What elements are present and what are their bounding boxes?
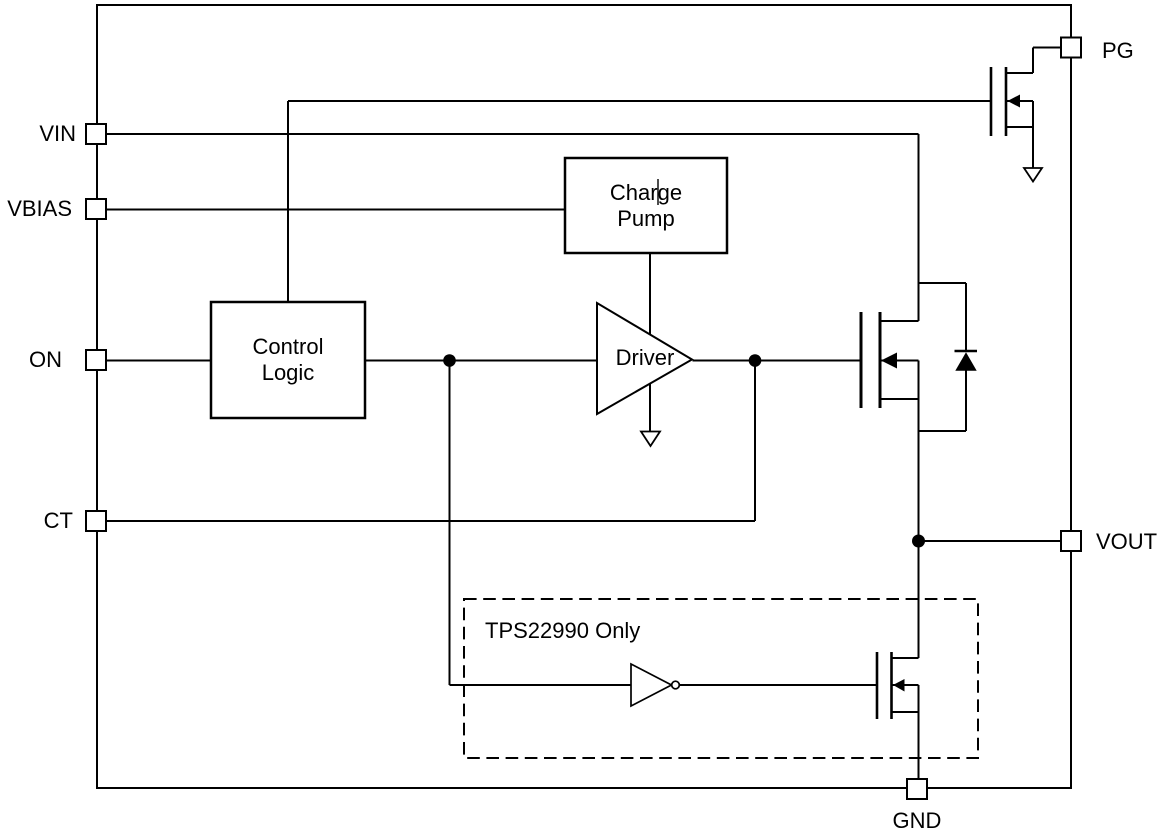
svg-text:Pump: Pump — [617, 206, 674, 231]
svg-text:Control: Control — [253, 334, 324, 359]
svg-text:GND: GND — [893, 808, 942, 833]
svg-text:ON: ON — [29, 347, 62, 372]
svg-text:CT: CT — [44, 508, 73, 533]
svg-text:VBIAS: VBIAS — [7, 196, 72, 221]
svg-text:TPS22990 Only: TPS22990 Only — [485, 618, 640, 643]
svg-text:Driver: Driver — [616, 345, 675, 370]
svg-text:Charge: Charge — [610, 180, 682, 205]
svg-text:PG: PG — [1102, 38, 1134, 63]
svg-text:VOUT: VOUT — [1096, 529, 1157, 554]
svg-text:VIN: VIN — [39, 121, 76, 146]
svg-text:Logic: Logic — [262, 360, 315, 385]
